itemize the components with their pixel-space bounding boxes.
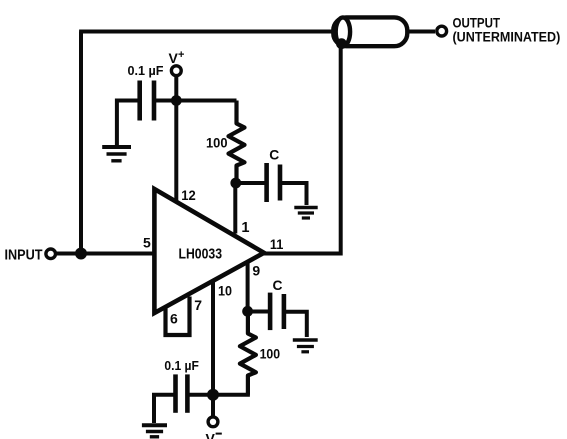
node coax junction xyxy=(336,38,347,49)
wire V+ junction to upper resistor xyxy=(176,99,236,103)
svg-text:C: C xyxy=(273,278,283,293)
op-amp U1 LH0033 (triangle) xyxy=(154,189,264,313)
pin 10 wire xyxy=(211,282,215,395)
wire lower resistor to V- junction xyxy=(213,393,250,397)
capacitor C (lower) xyxy=(248,293,307,337)
svg-text:10: 10 xyxy=(218,283,232,299)
svg-text:100: 100 xyxy=(206,135,228,150)
svg-text:(UNTERMINATED): (UNTERMINATED) xyxy=(453,30,561,45)
wire pin 11 to coax riser xyxy=(262,252,341,256)
svg-text:12: 12 xyxy=(181,187,196,203)
terminal V+ xyxy=(171,66,181,76)
wire input to pin 5 xyxy=(56,252,153,256)
wire input junction riser (left vertical) xyxy=(79,32,83,254)
ground (lower C) xyxy=(293,340,318,352)
node V+ junction xyxy=(171,95,182,106)
pin 1 wire xyxy=(233,183,237,234)
ground (V- bypass) xyxy=(142,425,167,437)
capacitor 0.1uF (V+ bypass) xyxy=(117,81,176,146)
wire coax riser xyxy=(339,42,343,256)
svg-text:100: 100 xyxy=(260,346,281,361)
node input junction xyxy=(75,248,87,260)
resistor 100 (lower) xyxy=(240,311,256,395)
terminal INPUT xyxy=(46,249,56,259)
pin 12 wire xyxy=(174,101,178,202)
svg-text:V: V xyxy=(206,431,216,439)
svg-text:1: 1 xyxy=(241,220,249,236)
node pin 1 junction xyxy=(230,178,241,189)
resistor 100 (upper) xyxy=(229,101,245,184)
node pin 9 junction xyxy=(242,306,253,317)
pin 9 wire xyxy=(246,262,250,312)
terminal OUTPUT xyxy=(437,26,447,36)
ground (upper C) xyxy=(294,208,317,219)
ground (V+ bypass) xyxy=(102,147,131,161)
svg-text:0.1 µF: 0.1 µF xyxy=(164,358,199,373)
coax cable end ellipse xyxy=(336,17,350,46)
node V- junction xyxy=(207,389,219,401)
pins 6-7 shorting staple xyxy=(166,297,190,336)
svg-text:11: 11 xyxy=(270,236,284,252)
wire top feedback run xyxy=(79,30,337,34)
svg-text:LH0033: LH0033 xyxy=(179,247,223,263)
svg-text:5: 5 xyxy=(143,234,151,250)
wire V- terminal drop xyxy=(211,395,215,417)
svg-text:0.1 µF: 0.1 µF xyxy=(128,63,164,78)
terminal V- xyxy=(208,417,218,427)
svg-text:9: 9 xyxy=(252,262,260,278)
capacitor C (upper) xyxy=(236,163,307,205)
wire coax to output terminal xyxy=(407,30,435,34)
svg-text:7: 7 xyxy=(194,297,202,313)
coax cable body xyxy=(333,17,407,46)
svg-text:+: + xyxy=(178,49,184,61)
svg-text:INPUT: INPUT xyxy=(5,247,43,263)
svg-text:C: C xyxy=(269,148,279,163)
svg-text:6: 6 xyxy=(170,311,178,327)
svg-text:OUTPUT: OUTPUT xyxy=(453,15,501,30)
capacitor 0.1uF (V- bypass) xyxy=(154,374,213,423)
svg-text:V: V xyxy=(169,50,179,66)
wire V+ terminal drop xyxy=(174,76,178,101)
